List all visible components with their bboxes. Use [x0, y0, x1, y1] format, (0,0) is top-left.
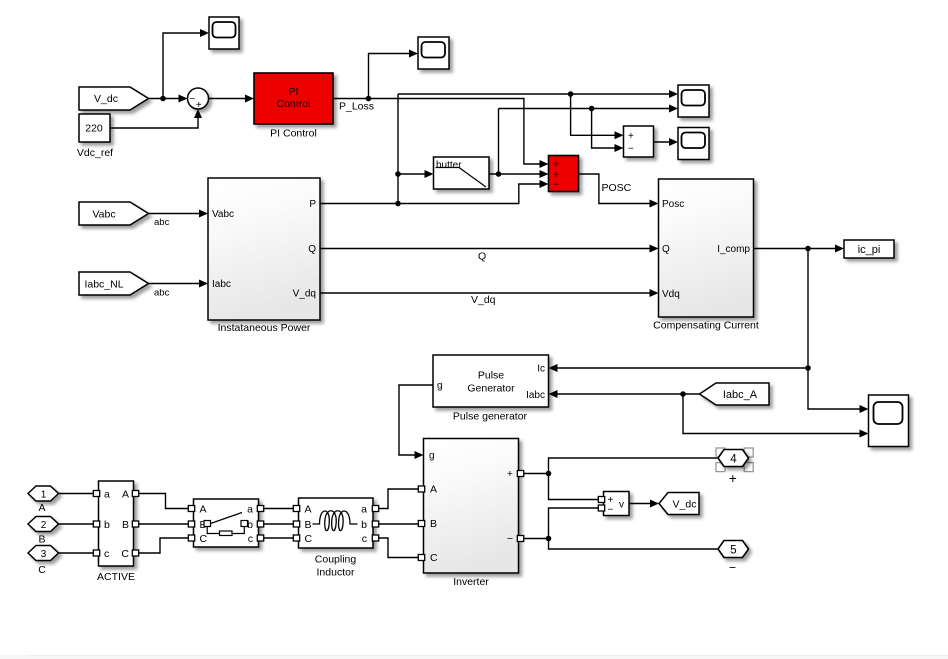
- selection handles port 4: [716, 448, 753, 472]
- svg-text:abc: abc: [154, 217, 170, 228]
- svg-text:Q: Q: [308, 244, 316, 255]
- wire Inverter minus to voltage measurement minus: [520, 508, 599, 539]
- wire voltage measurement v to V_dc goto tag: [629, 503, 656, 505]
- svg-text:A: A: [305, 504, 312, 516]
- ARROWHEADS LAYER: [179, 29, 869, 508]
- arrowhead into butter: [425, 170, 434, 178]
- scope Scope4: [678, 128, 709, 160]
- wire Breaker b to Coupling Inductor B: [260, 523, 294, 525]
- arrowhead into Q: [650, 245, 659, 253]
- wire I_comp output to ic_pi tag: [754, 248, 841, 250]
- svg-text:Q: Q: [478, 251, 486, 263]
- port squares Inverter: [418, 471, 523, 561]
- svg-text:C: C: [38, 564, 46, 576]
- arrowhead into V_dc goto tag: [650, 500, 659, 508]
- sum Sum2 (red, + + -): [549, 156, 579, 192]
- svg-text:b: b: [104, 519, 110, 531]
- svg-text:Ic: Ic: [537, 364, 545, 375]
- svg-text:ic_pi: ic_pi: [858, 244, 881, 256]
- subsystem Compensating Current: [653, 179, 759, 332]
- wire P top line to Scope3 input1: [398, 93, 675, 95]
- wire V_dq: Instantaneous Power to Compensating Current: [320, 292, 655, 294]
- wire port2 to ACTIVE b: [59, 523, 95, 525]
- svg-text:Control: Control: [277, 98, 311, 110]
- arrowhead into white Sum3 minus: [615, 144, 624, 152]
- svg-text:P_Loss: P_Loss: [339, 101, 374, 113]
- svg-text:a: a: [361, 504, 367, 516]
- svg-text:a: a: [104, 489, 110, 501]
- wire P: Instantaneous Power P output to red Sum2 input3: [320, 184, 545, 204]
- arrowhead into Scope3 input1: [669, 90, 678, 98]
- arrowhead into red Sum2 input2: [540, 170, 549, 178]
- svg-text:a: a: [247, 504, 253, 516]
- svg-text:−: −: [608, 504, 614, 515]
- wire butter branch down to white Sum3 minus input: [592, 109, 620, 149]
- svg-text:C: C: [121, 548, 129, 560]
- svg-text:4: 4: [730, 453, 737, 465]
- wire Inverter plus to port4: [520, 458, 718, 474]
- goto tag ic_pi: [844, 240, 894, 258]
- arrowhead into ic_pi: [835, 245, 844, 253]
- svg-text:ACTIVE: ACTIVE: [97, 571, 135, 583]
- wire POSC: red Sum2 output to Compensating Current Posc: [579, 174, 656, 204]
- svg-text:P: P: [309, 199, 316, 210]
- wire butter line2 to Scope3 input2: [499, 108, 675, 110]
- port squares breaker: [188, 506, 263, 542]
- svg-text:Vdq: Vdq: [662, 289, 680, 300]
- wire Coupling Inductor b to Inverter B: [375, 523, 420, 525]
- wire butter branch up to line2: [498, 109, 500, 175]
- svg-text:B: B: [38, 534, 45, 546]
- node butter input branch: [395, 171, 401, 177]
- wire Breaker c to Coupling Inductor C: [260, 537, 294, 539]
- wire I_comp branch down to big Scope5 input1: [808, 368, 865, 409]
- svg-text:Generator: Generator: [467, 383, 515, 395]
- node Inverter plus branch: [546, 471, 552, 477]
- wire Breaker a to Coupling Inductor A: [260, 508, 294, 510]
- subsystem PI Control (red): [254, 73, 333, 140]
- subsystem Inverter: [418, 439, 523, 589]
- svg-text:Vdc_ref: Vdc_ref: [77, 147, 113, 159]
- arrowhead left into Pulse Generator Iabc: [549, 390, 558, 398]
- svg-text:C: C: [430, 552, 438, 564]
- svg-text:C: C: [305, 533, 313, 545]
- filter butter: [434, 157, 490, 189]
- wire ACTIVE C to Breaker C: [135, 538, 189, 553]
- svg-text:Pulse generator: Pulse generator: [453, 411, 528, 423]
- svg-text:g: g: [429, 451, 435, 462]
- breaker block: [188, 499, 263, 547]
- wire white Sum3 output to Scope4: [654, 141, 675, 143]
- svg-text:Vabc: Vabc: [212, 209, 234, 220]
- svg-text:V_dq: V_dq: [293, 289, 316, 300]
- svg-text:220: 220: [85, 123, 103, 135]
- node Inverter minus branch: [546, 536, 552, 542]
- wire Ic into Pulse Generator: [552, 367, 808, 369]
- wire constant 220 to Sum1 bottom: [110, 113, 198, 128]
- svg-text:A: A: [38, 502, 45, 514]
- scope Scope3 (two inputs): [678, 85, 709, 117]
- svg-text:abc: abc: [154, 288, 170, 299]
- svg-text:V_dc: V_dc: [94, 93, 118, 105]
- wire Vabc tag to Instantaneous Power: [149, 213, 205, 215]
- from tag Vabc: [79, 202, 149, 225]
- port 2: [28, 517, 59, 546]
- scope Scope1: [209, 17, 239, 49]
- WIRE LABELS LAYER: [154, 101, 632, 307]
- arrowhead into Scope3 input2: [669, 105, 678, 113]
- wire Sum1 to PI Control: [209, 98, 251, 100]
- node Iabc_A branch: [680, 391, 686, 397]
- svg-text:v: v: [619, 500, 624, 511]
- svg-text:A: A: [200, 504, 207, 516]
- arrowhead into big Scope5 input2: [860, 430, 869, 438]
- svg-text:+: +: [729, 471, 737, 486]
- arrowhead into Sum1: [179, 95, 188, 103]
- port squares coupling inductor: [293, 506, 378, 542]
- svg-text:C: C: [200, 533, 208, 545]
- scope Scope2: [418, 37, 449, 69]
- svg-text:5: 5: [730, 544, 736, 556]
- svg-text:Inverter: Inverter: [453, 576, 489, 588]
- svg-text:2: 2: [41, 520, 47, 531]
- sum Sum1: [188, 88, 209, 111]
- breaker switch icon: [204, 513, 248, 536]
- svg-text:g: g: [437, 381, 443, 392]
- wire Pulse Generator g output to Inverter g: [399, 385, 433, 455]
- wire Inverter plus branch to voltage measurement plus: [549, 474, 599, 500]
- svg-text:c: c: [104, 548, 109, 560]
- svg-text:butter: butter: [436, 160, 462, 171]
- node butter output branch: [496, 171, 502, 177]
- voltage measurement v: [598, 492, 629, 516]
- svg-text:PI Control: PI Control: [270, 128, 317, 140]
- arrowhead into red Sum2 input3: [540, 180, 549, 188]
- goto tag V_dc: [659, 493, 699, 515]
- sum Sum3 (white, + -): [624, 126, 654, 157]
- wire butter output to red Sum2 input2: [489, 173, 545, 175]
- node P_Loss branch: [366, 96, 372, 102]
- subsystem Pulse Generator: [433, 355, 549, 423]
- arrowhead into Scope2: [409, 50, 418, 58]
- WIRES LAYER: [59, 33, 866, 558]
- svg-text:Compensating Current: Compensating Current: [653, 320, 759, 332]
- arrowhead into Instantaneous Power Iabc: [199, 280, 208, 288]
- arrowhead into Vdq: [650, 289, 659, 297]
- port 5: [718, 541, 749, 575]
- svg-text:Instataneous Power: Instataneous Power: [218, 322, 311, 334]
- arrowhead into Posc: [650, 200, 659, 208]
- svg-text:+: +: [507, 468, 513, 480]
- svg-text:−: −: [553, 179, 559, 190]
- arrowhead into white Sum3 plus: [615, 131, 624, 139]
- arrowhead into red Sum2 input1: [540, 160, 549, 168]
- svg-text:+: +: [628, 131, 634, 142]
- arrowhead into Scope1: [200, 29, 209, 37]
- wire junction V_dc up to Scope1: [163, 33, 206, 99]
- arrowhead into Instantaneous Power Vabc: [199, 210, 208, 218]
- port 4 (selected): [716, 448, 753, 486]
- svg-text:A: A: [122, 489, 129, 501]
- svg-text:V_dq: V_dq: [471, 294, 496, 306]
- port squares voltage measurement: [598, 497, 604, 512]
- wire P branch to butter filter: [398, 173, 430, 175]
- wire I_comp branch down vertical: [807, 249, 809, 369]
- subsystem ACTIVE: [93, 481, 138, 583]
- arrowhead into Scope4: [669, 138, 678, 146]
- node butter line2 branch: [589, 106, 595, 112]
- coupling inductor block: [293, 498, 378, 579]
- wire P_Loss branch up to Scope2: [369, 54, 415, 99]
- node P output branch: [395, 201, 401, 207]
- wire Iabc_A branch down to big Scope5 input2: [683, 394, 865, 434]
- svg-text:PI: PI: [289, 86, 299, 98]
- arrowhead into PI Control: [245, 95, 254, 103]
- node P top line branch: [568, 91, 574, 97]
- scope Scope5 (large, two inputs): [869, 395, 909, 447]
- svg-text:c: c: [362, 533, 367, 545]
- svg-text:−: −: [628, 144, 634, 155]
- arrowhead up into Sum1 bottom: [194, 109, 202, 118]
- wire Iabc_NL tag to Instantaneous Power: [149, 283, 205, 285]
- window bottom edge line: [0, 655, 948, 659]
- svg-text:−: −: [729, 561, 736, 575]
- svg-text:Q: Q: [662, 244, 670, 255]
- svg-text:Iabc_A: Iabc_A: [723, 389, 758, 401]
- svg-text:Pulse: Pulse: [478, 370, 504, 382]
- svg-text:Iabc_NL: Iabc_NL: [84, 279, 123, 291]
- svg-text:Posc: Posc: [662, 199, 684, 210]
- svg-text:b: b: [361, 519, 367, 531]
- svg-text:Coupling: Coupling: [315, 554, 357, 566]
- port 3: [28, 546, 59, 577]
- wire port3 to ACTIVE c: [59, 552, 95, 554]
- wire port1 to ACTIVE a: [59, 493, 95, 495]
- svg-text:I_comp: I_comp: [717, 244, 750, 255]
- node Ic branch: [805, 365, 811, 371]
- svg-text:Vabc: Vabc: [92, 209, 115, 221]
- from tag V_dc: [79, 87, 149, 110]
- arrowhead into Inverter g: [415, 451, 424, 459]
- svg-text:V_dc: V_dc: [673, 499, 697, 511]
- svg-text:POSC: POSC: [602, 182, 632, 194]
- wire Coupling Inductor a to Inverter A: [375, 489, 420, 509]
- wire P_Loss: PI Control to red Sum2 input1: [333, 99, 545, 165]
- arrowhead into big Scope5 input1: [860, 405, 869, 413]
- goto tag Iabc_A: [700, 383, 770, 405]
- wire P branch down to white Sum3 plus input: [571, 94, 620, 135]
- wire Coupling Inductor c to Inverter C: [375, 538, 420, 558]
- svg-text:B: B: [430, 518, 437, 530]
- svg-text:B: B: [305, 519, 312, 531]
- wire V_dc tag to Sum1: [149, 98, 185, 100]
- svg-text:3: 3: [41, 549, 47, 560]
- svg-text:Iabc: Iabc: [526, 390, 545, 401]
- svg-text:B: B: [122, 519, 129, 531]
- svg-text:c: c: [248, 533, 253, 545]
- arrowhead left into Pulse Generator Ic: [549, 364, 558, 372]
- wire Q: Instantaneous Power to Compensating Current: [320, 248, 655, 250]
- svg-text:−: −: [507, 533, 513, 545]
- subsystem Instantaneous Power: [208, 178, 320, 334]
- svg-text:1: 1: [41, 490, 47, 501]
- node I_comp branch: [805, 246, 811, 252]
- node V_dc branch: [160, 96, 166, 102]
- svg-text:Iabc: Iabc: [212, 279, 231, 290]
- wire Iabc_A tag to Pulse Generator Iabc: [552, 393, 700, 395]
- constant Vdc_ref 220: [77, 114, 113, 159]
- wire ACTIVE B to Breaker B: [135, 523, 189, 525]
- port 1: [28, 486, 59, 514]
- inductor coil icon: [313, 511, 358, 531]
- svg-text:A: A: [430, 484, 437, 496]
- wire ACTIVE A to Breaker A: [135, 494, 189, 509]
- from tag Iabc_NL: [79, 272, 149, 295]
- svg-text:−: −: [189, 94, 195, 105]
- svg-text:+: +: [196, 100, 202, 111]
- JUNCTION DOTS LAYER: [160, 91, 811, 541]
- wire Inverter minus branch to port5: [549, 539, 719, 550]
- port squares ACTIVE: [93, 491, 138, 557]
- wire P branch up vertical: [397, 94, 399, 204]
- svg-text:Inductor: Inductor: [317, 567, 355, 579]
